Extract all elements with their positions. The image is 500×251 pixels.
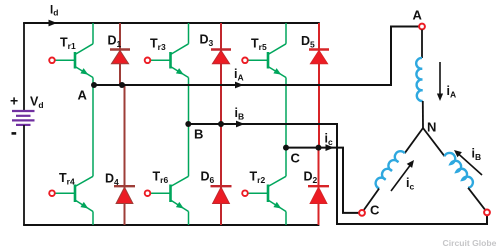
svg-text:ic: ic [325,132,333,148]
diode D4 wire [124,85,126,225]
svg-text:D3: D3 [200,33,214,49]
wire phase C line [286,148,359,213]
wire Tr5 collector to top rail [285,23,287,44]
diode D6 [211,186,232,203]
svg-text:B: B [194,127,203,142]
terminal B circle [484,210,490,216]
diode D2 wire [318,148,320,225]
svg-text:Tr2: Tr2 [250,170,266,186]
label - [12,132,17,135]
svg-text:D5: D5 [301,34,315,50]
terminal C circle [359,210,365,216]
svg-text:Tr6: Tr6 [153,170,169,186]
arrow iB on phase B line [236,121,245,128]
svg-text:+: + [10,93,18,109]
svg-text:iB: iB [472,147,482,163]
diode D1 wire [119,23,121,85]
svg-text:iA: iA [234,67,244,83]
transistor Tr2 [242,176,286,211]
arrow iB load [458,154,482,176]
wire Tr1 collector to top rail [92,23,94,44]
wire phase A line [94,27,419,86]
junction D3-D6 on phase B [218,121,224,127]
wire Tr3 emitter to node B [188,78,190,125]
arrow ic on phase C line [326,144,335,151]
svg-text:Vd: Vd [30,95,44,111]
wire node N to phase C coil [405,128,423,153]
battery Vd plate long top [12,110,35,112]
junction D1-D4 on phase A [119,82,125,88]
wire phase B line [188,124,487,224]
svg-text:C: C [370,203,380,218]
wire Tr2 collector to node C [285,148,287,177]
wire Tr6 emitter to bottom rail [188,212,190,226]
junction D5-D2 on phase C [316,145,322,151]
diode D5 [309,50,329,64]
transistor Tr5 [242,44,286,78]
wire: top DC rail [23,22,320,24]
svg-text:Tr4: Tr4 [59,171,75,187]
battery Vd plate short [16,115,31,117]
svg-text:iA: iA [447,84,457,100]
inductor phase C coil [376,151,405,188]
wire Tr4 collector to node A [92,85,94,176]
wire Tr3 collector to top rail [188,23,190,44]
wire: bottom DC rail [23,224,319,226]
inductor phase A coil [416,58,423,101]
svg-text:Id: Id [50,5,58,18]
svg-text:D6: D6 [201,170,215,186]
transistor Tr1 [49,44,93,78]
svg-text:C: C [291,151,301,166]
svg-text:Tr3: Tr3 [150,37,166,53]
battery Vd plate short bottom [16,124,31,126]
svg-text:iB: iB [235,106,245,122]
junction node A [91,82,97,88]
junction node C [283,145,289,151]
svg-text:A: A [78,88,88,103]
wire: battery positive to top rail [23,23,25,111]
transistor Tr3 [145,44,189,78]
diode D5 wire [318,23,320,148]
svg-text:D4: D4 [105,172,119,188]
svg-text:Circuit Globe: Circuit Globe [443,238,497,248]
wire phase C coil to terminal C [364,189,379,210]
battery Vd plate long [12,119,35,121]
diode D6 wire [220,124,222,225]
wire Tr2 emitter to bottom rail [285,212,287,226]
diode D1 [110,50,130,64]
arrow iA load [439,62,441,95]
arrow Id on top rail [49,20,58,27]
wire: battery negative to bottom rail [23,125,25,225]
junction node B [185,121,191,127]
wire Tr4 emitter to bottom rail [92,212,94,226]
inductor phase B coil [445,153,473,188]
svg-text:N: N [427,120,436,135]
wire coil to node N [422,101,424,128]
terminal A circle [419,24,425,30]
wire Tr5 emitter to node C [285,78,287,148]
wire Tr1 emitter to node A [92,78,94,86]
diode D2 [308,186,329,203]
svg-text:A: A [413,8,423,23]
transistor Tr6 [145,176,189,211]
transistor Tr4 [49,176,93,211]
wire node N to phase B coil [423,128,445,156]
svg-text:D2: D2 [304,170,318,186]
svg-text:Tr1: Tr1 [60,36,76,52]
svg-text:Tr5: Tr5 [251,37,267,53]
diode D3 [211,50,231,64]
arrow iA on phase A line [235,82,244,89]
diode D4 [114,186,135,203]
wire Tr6 collector to node B [188,124,190,176]
svg-text:ic: ic [406,176,414,192]
wire terminal A to coil [421,30,423,58]
wire phase B coil to terminal B [468,188,485,210]
arrow ic load [391,166,410,192]
diode D3 wire [220,23,222,124]
